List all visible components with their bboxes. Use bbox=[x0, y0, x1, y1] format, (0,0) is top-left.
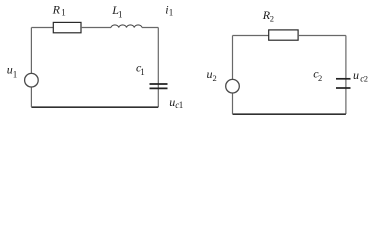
resistor R2 bbox=[269, 30, 298, 40]
svg-text:1: 1 bbox=[13, 70, 17, 80]
capacitor C2 top plate bbox=[336, 78, 351, 80]
wire: between R1 and L1 bbox=[81, 27, 111, 29]
wire: right circuit left vertical lower bbox=[232, 93, 234, 114]
svg-text:1: 1 bbox=[140, 67, 145, 77]
wire: right circuit left vertical upper bbox=[232, 36, 234, 80]
label u1 bbox=[7, 63, 17, 80]
label i1 bbox=[165, 3, 173, 18]
label L1 bbox=[111, 3, 122, 20]
wire: L1 to top-right corner bbox=[142, 27, 158, 29]
inductor L1 bbox=[111, 25, 142, 28]
label u2 bbox=[207, 67, 217, 83]
wire: right circuit, top-left horizontal segment bbox=[233, 35, 269, 37]
wire: left circuit right vertical bbox=[157, 28, 159, 108]
label uc1 bbox=[169, 95, 183, 110]
label c1 bbox=[136, 61, 145, 77]
source U2 bbox=[226, 79, 240, 93]
capacitor C1 bottom plate bbox=[150, 87, 168, 89]
svg-text:2: 2 bbox=[318, 73, 322, 83]
svg-text:1: 1 bbox=[179, 100, 184, 110]
wire: right circuit bottom bbox=[233, 113, 346, 115]
capacitor C1 top plate bbox=[150, 83, 168, 85]
wire: left circuit, top-left horizontal segment bbox=[31, 27, 53, 29]
wire: left circuit left vertical lower bbox=[30, 87, 32, 107]
wire: left circuit left vertical upper bbox=[30, 28, 32, 74]
wire: right circuit right vertical bbox=[345, 36, 347, 115]
label R2 bbox=[262, 8, 274, 24]
svg-text:2: 2 bbox=[364, 74, 368, 84]
svg-text:2: 2 bbox=[270, 14, 274, 24]
wire: left circuit bottom bbox=[31, 106, 158, 108]
wire: R2 to top-right corner bbox=[298, 35, 346, 37]
svg-text:1: 1 bbox=[169, 8, 174, 18]
svg-text:1: 1 bbox=[61, 8, 65, 18]
svg-text:u: u bbox=[353, 68, 359, 82]
capacitor C2 bottom plate bbox=[336, 87, 351, 89]
svg-text:2: 2 bbox=[213, 73, 217, 83]
label R1 bbox=[52, 3, 66, 18]
svg-text:1: 1 bbox=[118, 10, 123, 20]
resistor R1 bbox=[53, 22, 81, 32]
svg-text:R: R bbox=[52, 3, 61, 17]
label uc2 bbox=[353, 68, 368, 84]
source U1 bbox=[25, 73, 39, 87]
label c2 bbox=[313, 66, 322, 83]
